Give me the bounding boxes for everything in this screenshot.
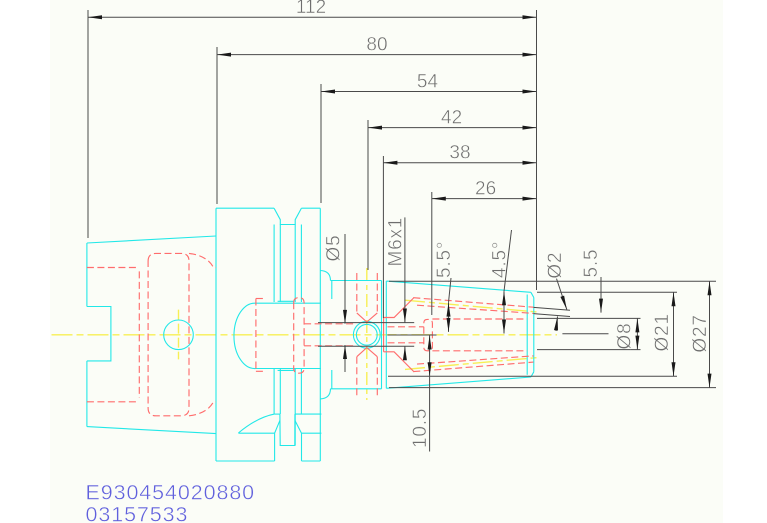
ext line 42	[367, 120, 369, 270]
shank bore top	[87, 267, 138, 269]
shank left face lower	[86, 361, 88, 427]
svg-text:Ø21: Ø21	[652, 313, 673, 351]
dimension 54	[321, 91, 537, 93]
counterbore step left	[138, 271, 140, 397]
drill point upper	[357, 313, 378, 322]
cross-hole circle inner	[356, 324, 377, 345]
groove edge line b	[279, 225, 281, 303]
drive slot floor left	[238, 432, 274, 434]
svg-text:10.5: 10.5	[410, 408, 431, 448]
svg-text:42: 42	[441, 108, 462, 129]
centerline drive-hole vertical	[178, 310, 180, 360]
svg-text:26: 26	[475, 179, 496, 200]
flange top edge left	[216, 207, 274, 209]
flange left face	[215, 208, 217, 461]
centerline main axis	[52, 334, 558, 336]
groove bottom shelf right	[295, 413, 322, 415]
coolant channel upper line1	[413, 298, 533, 308]
flange bottom edge left	[216, 460, 275, 462]
v-groove top profile	[274, 208, 301, 224]
nut cone bottom edge	[386, 377, 531, 388]
cross-hole wall left upper	[356, 273, 358, 313]
drive slot floor right	[302, 432, 322, 434]
svg-text:38: 38	[449, 143, 470, 164]
dimension 5.5deg leader	[449, 278, 452, 303]
svg-text:4.5°: 4.5°	[490, 241, 511, 278]
drill point lower	[357, 348, 378, 357]
pilot bore top	[304, 323, 355, 325]
shank drive hole circle	[164, 320, 194, 350]
fillet flange-body top	[320, 271, 330, 281]
svg-text:E930454020880: E930454020880	[86, 481, 256, 505]
v-groove bottom profile	[280, 414, 295, 445]
groove bottom wedge left	[275, 420, 280, 433]
ext line flange right	[320, 84, 322, 203]
M6 thread ext bottom	[318, 345, 414, 347]
nut tip inner edge	[526, 295, 528, 375]
ext line flange face	[216, 47, 218, 204]
svg-text:80: 80	[366, 35, 387, 56]
ext line tip	[536, 10, 538, 290]
D27 ext bottom	[389, 387, 716, 389]
coolant tube capsule	[234, 303, 321, 368]
svg-text:03157533: 03157533	[86, 503, 189, 523]
pocket corner arc top	[189, 253, 216, 267]
ext line 38	[382, 156, 384, 318]
D8 ext top	[537, 317, 641, 319]
fillet flange-body bottom	[320, 389, 330, 399]
collet nose bottom	[384, 352, 415, 372]
D27 ext top	[389, 280, 716, 282]
collet bore bottom	[432, 350, 527, 352]
svg-text:Ø27: Ø27	[690, 314, 711, 352]
coolant channel upper line2	[417, 305, 534, 313]
capsule inner edge top	[278, 300, 294, 302]
flange hidden stub bottom	[256, 370, 266, 372]
centerline coolant channel upper	[405, 300, 538, 312]
centerline cross-hole vertical	[366, 268, 368, 400]
M6 thread ext top	[318, 322, 414, 324]
shank bore bottom	[87, 401, 138, 403]
dimension 112	[88, 16, 537, 18]
cross-hole wall right lower	[376, 357, 378, 397]
capsule inner edge bottom	[278, 369, 294, 371]
groove bottom wedge right	[295, 420, 302, 433]
nut tip chamfer bottom	[531, 372, 534, 377]
flange hidden stub top	[256, 298, 266, 300]
D21 ext bottom	[388, 375, 677, 377]
svg-text:5.5°: 5.5°	[434, 241, 455, 278]
counterbore pocket	[148, 253, 189, 415]
nut back face second	[385, 281, 387, 388]
cross-hole wall left lower	[356, 357, 358, 397]
nut tip chamfer top	[531, 292, 534, 297]
dimension 38	[383, 162, 536, 164]
dimension M6x1	[404, 217, 406, 322]
center ext line left	[387, 334, 436, 336]
svg-text:M6x1: M6x1	[386, 217, 407, 267]
flange bottom edge right	[302, 460, 321, 462]
drive slot vertical right	[301, 433, 303, 461]
dimension D2	[557, 279, 567, 310]
collet nose top	[384, 297, 415, 317]
thread minor bottom	[388, 342, 424, 344]
flange cross hole	[294, 298, 304, 374]
groove edge line d	[300, 225, 302, 303]
coolant channel lower line1	[413, 362, 533, 372]
dimension 80	[217, 54, 537, 56]
drive slot fillet arc	[238, 414, 274, 433]
dimension 10.5	[429, 335, 431, 452]
dimension 4.5deg leader	[504, 230, 512, 291]
shank notch	[87, 307, 111, 361]
dimension D21	[673, 292, 675, 376]
flange right face	[319, 208, 321, 461]
body top edge	[331, 280, 382, 282]
svg-text:5.5: 5.5	[581, 249, 602, 278]
svg-text:112: 112	[296, 0, 326, 18]
drive slot vertical left	[274, 433, 276, 461]
dimension D8	[636, 318, 638, 349]
collet bore top	[432, 318, 527, 320]
D8 ext bottom	[537, 349, 641, 351]
nut back face	[381, 281, 383, 389]
svg-text:54: 54	[417, 72, 439, 93]
thread step pocket	[424, 319, 433, 350]
flange hidden vertical	[255, 299, 257, 372]
shank taper top edge	[87, 236, 216, 243]
flange top edge right	[301, 207, 320, 209]
ext line left face	[87, 10, 89, 238]
shank left face upper	[86, 243, 88, 307]
collet rear face	[383, 318, 385, 352]
dimension 42	[368, 127, 537, 129]
pilot bore bottom	[304, 345, 355, 347]
nut cone top edge	[386, 281, 531, 292]
dimension 26	[432, 198, 537, 200]
centerline coolant channel lower	[405, 358, 538, 370]
shank taper bottom edge	[87, 427, 216, 434]
D2 ext line upper	[534, 307, 571, 310]
nut tip face	[533, 298, 535, 372]
coolant channel lower line2	[417, 356, 534, 364]
groove edge line a	[273, 225, 275, 303]
dimension D5	[344, 234, 346, 324]
cross-hole wall right upper	[376, 273, 378, 313]
dimension D27	[709, 281, 711, 387]
dimension 5.5 line	[600, 277, 602, 313]
thread minor top	[388, 326, 424, 328]
body edge mark top	[331, 281, 333, 300]
groove edge line c	[294, 225, 296, 303]
svg-text:Ø5: Ø5	[324, 235, 345, 262]
body edge mark bottom	[331, 370, 333, 389]
body bottom edge	[331, 388, 382, 390]
svg-text:Ø8: Ø8	[615, 323, 636, 350]
D2 ext line lower	[534, 314, 571, 317]
svg-text:Ø2: Ø2	[545, 252, 566, 279]
pocket corner arc bottom	[189, 402, 216, 416]
D21 ext top	[537, 291, 677, 293]
center ext line right	[562, 333, 608, 335]
groove bottom shelf left	[274, 413, 280, 415]
ext line 26	[431, 192, 433, 315]
cross-hole circle outer	[353, 321, 380, 348]
